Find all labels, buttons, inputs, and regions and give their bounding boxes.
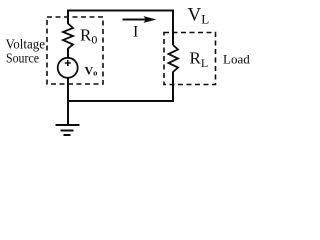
voltage source V0 circle [58, 58, 78, 78]
wire from top-right corner down to RL top [172, 10, 174, 46]
wire from source bottom to ground [67, 78, 69, 126]
resistor R0 [63, 24, 73, 49]
ground [56, 125, 80, 135]
svg-text:Source: Source [6, 52, 39, 67]
wire from R0 bottom to source top [67, 48, 69, 59]
resistor RL [169, 45, 179, 72]
wire from RL bottom to bottom wire [172, 72, 174, 103]
bottom wire horizontal [67, 100, 174, 102]
svg-text:Voltage: Voltage [6, 38, 46, 53]
svg-text:R0: R0 [80, 26, 97, 47]
dashed box voltage source [47, 17, 103, 84]
label Voltage Source [6, 38, 46, 67]
svg-text:VL: VL [188, 5, 210, 27]
label Load [223, 51, 250, 66]
wire top horizontal [67, 10, 174, 12]
svg-text:RL: RL [190, 49, 209, 70]
svg-text:I: I [133, 24, 138, 41]
label RL [190, 49, 209, 70]
label R0 [80, 26, 97, 47]
wire from R0 top to top-left corner [67, 11, 69, 25]
label VL [188, 5, 210, 27]
dashed box load [164, 33, 216, 85]
current arrow [123, 16, 157, 23]
label I [133, 24, 138, 41]
plus sign of source [65, 60, 71, 66]
label V0 [85, 64, 98, 78]
svg-text:Vo: Vo [85, 64, 98, 78]
svg-text:Load: Load [223, 51, 250, 66]
